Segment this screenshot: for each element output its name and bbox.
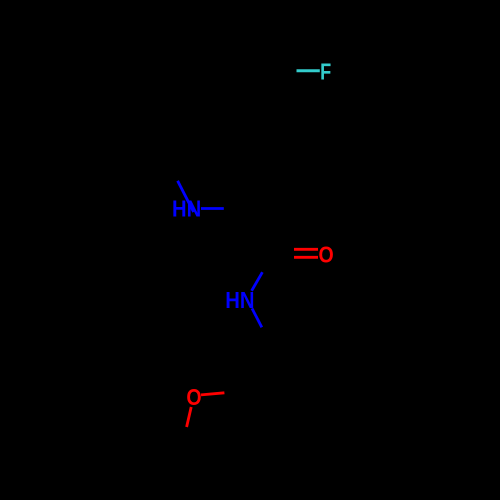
svg-text:F: F — [320, 60, 331, 86]
atom label O (carbonyl oxygen) — [319, 242, 334, 268]
bond N1-C2 (blue half, horizontal) — [201, 207, 224, 210]
atom label HN (ring nitrogen N1) — [172, 195, 201, 222]
double bond C=O (red halves) — [294, 249, 318, 257]
bond C-F (cyan half) — [297, 69, 320, 72]
svg-text:O: O — [186, 385, 201, 411]
bond C(O)-N2 (blue half, up-right diagonal) — [252, 272, 263, 291]
svg-text:HN: HN — [172, 195, 201, 222]
bond O-C2' (red half, to ring) — [201, 393, 224, 395]
svg-text:HN: HN — [225, 287, 254, 314]
bond N2-C1' (blue half, down-right diagonal) — [252, 308, 262, 327]
svg-text:O: O — [319, 242, 334, 268]
bond O-CH3 (red half, down-left) — [187, 407, 192, 427]
atom label HN (amide nitrogen N2) — [225, 287, 254, 314]
atom label F — [320, 60, 331, 86]
atom label O (methoxy oxygen) — [186, 385, 201, 411]
bond C8a-N1 (blue half, diagonal) — [178, 181, 194, 212]
